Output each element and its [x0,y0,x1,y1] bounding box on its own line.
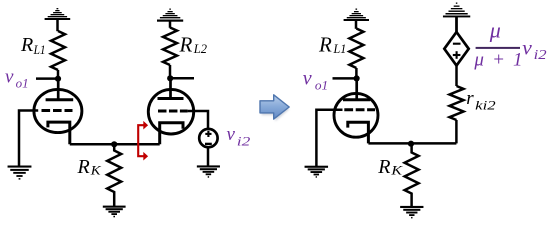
wire RL1 right to node [355,68,358,78]
ground grid V1 [8,166,32,180]
resistor RL1 right [349,29,363,68]
triode V3 [334,78,378,143]
svg-text:o1: o1 [315,78,328,93]
svg-text:v: v [522,35,532,59]
blue transform arrow shadow [262,97,290,121]
svg-text:K: K [90,163,102,177]
svg-text:i2: i2 [237,134,251,149]
svg-text:v: v [303,67,312,89]
svg-text:R: R [20,34,33,56]
wire cathode bus right [368,142,456,145]
triode V2 [148,78,193,144]
resistor RL1 left [51,31,65,70]
node plate V2 [167,75,173,81]
supply rail V+ left [45,8,71,31]
wire vo1 stub left [36,77,58,80]
ground under vi2 [197,165,220,177]
source vi2 [199,129,217,147]
wire source to ground [207,148,210,167]
wire rki2 to diamond [455,66,458,87]
node cathode RK left [111,141,117,147]
ground RK right [400,206,423,219]
svg-text:L1: L1 [333,42,347,56]
svg-text:R: R [377,156,390,178]
blue transform arrow [260,95,289,119]
ground grid V3 [305,166,329,178]
wire vo1 stub right [333,77,357,80]
wire RL1 to plate node [57,70,60,79]
svg-text:K: K [390,163,403,177]
red cut annotation [138,121,148,161]
wire vo2 stub [170,77,194,80]
svg-text:i2: i2 [534,47,547,62]
resistor rki2 [450,86,464,120]
svg-text:R: R [77,156,90,178]
triode V1 [34,79,82,145]
svg-text:v: v [227,124,236,145]
supply rail V+ right [344,9,369,29]
node vo1 left [55,76,61,82]
resistor RK left [107,144,121,206]
svg-text:R: R [318,32,332,56]
supply rail above diamond [443,3,470,33]
resistor RL2 [163,28,177,66]
label mu fraction vi2 [473,18,546,71]
svg-text:ki2: ki2 [475,97,496,112]
ground RK left [103,206,126,218]
svg-text:μ + 1: μ + 1 [473,49,524,70]
svg-text:L2: L2 [193,42,207,56]
wire cathode bus left [70,143,160,146]
wire diamond to supply [455,16,458,32]
node RK right [408,141,414,147]
wire grid V3 to ground [316,110,342,167]
dependent source diamond [444,32,468,66]
wire rki2 branch vertical [455,120,458,143]
svg-text:o1: o1 [16,77,29,91]
svg-text:R: R [179,32,193,56]
wire grid V2 to source vi2 [188,111,208,129]
resistor RK right [405,144,419,206]
supply rail V+ middle [157,9,183,28]
svg-text:μ: μ [489,18,501,43]
wire grid V1 to ground [19,111,38,167]
wire RL2 to plate node [169,65,172,78]
svg-text:r: r [466,88,474,109]
svg-text:L1: L1 [33,43,46,57]
svg-text:v: v [5,67,14,88]
node vo1 right [354,75,360,81]
